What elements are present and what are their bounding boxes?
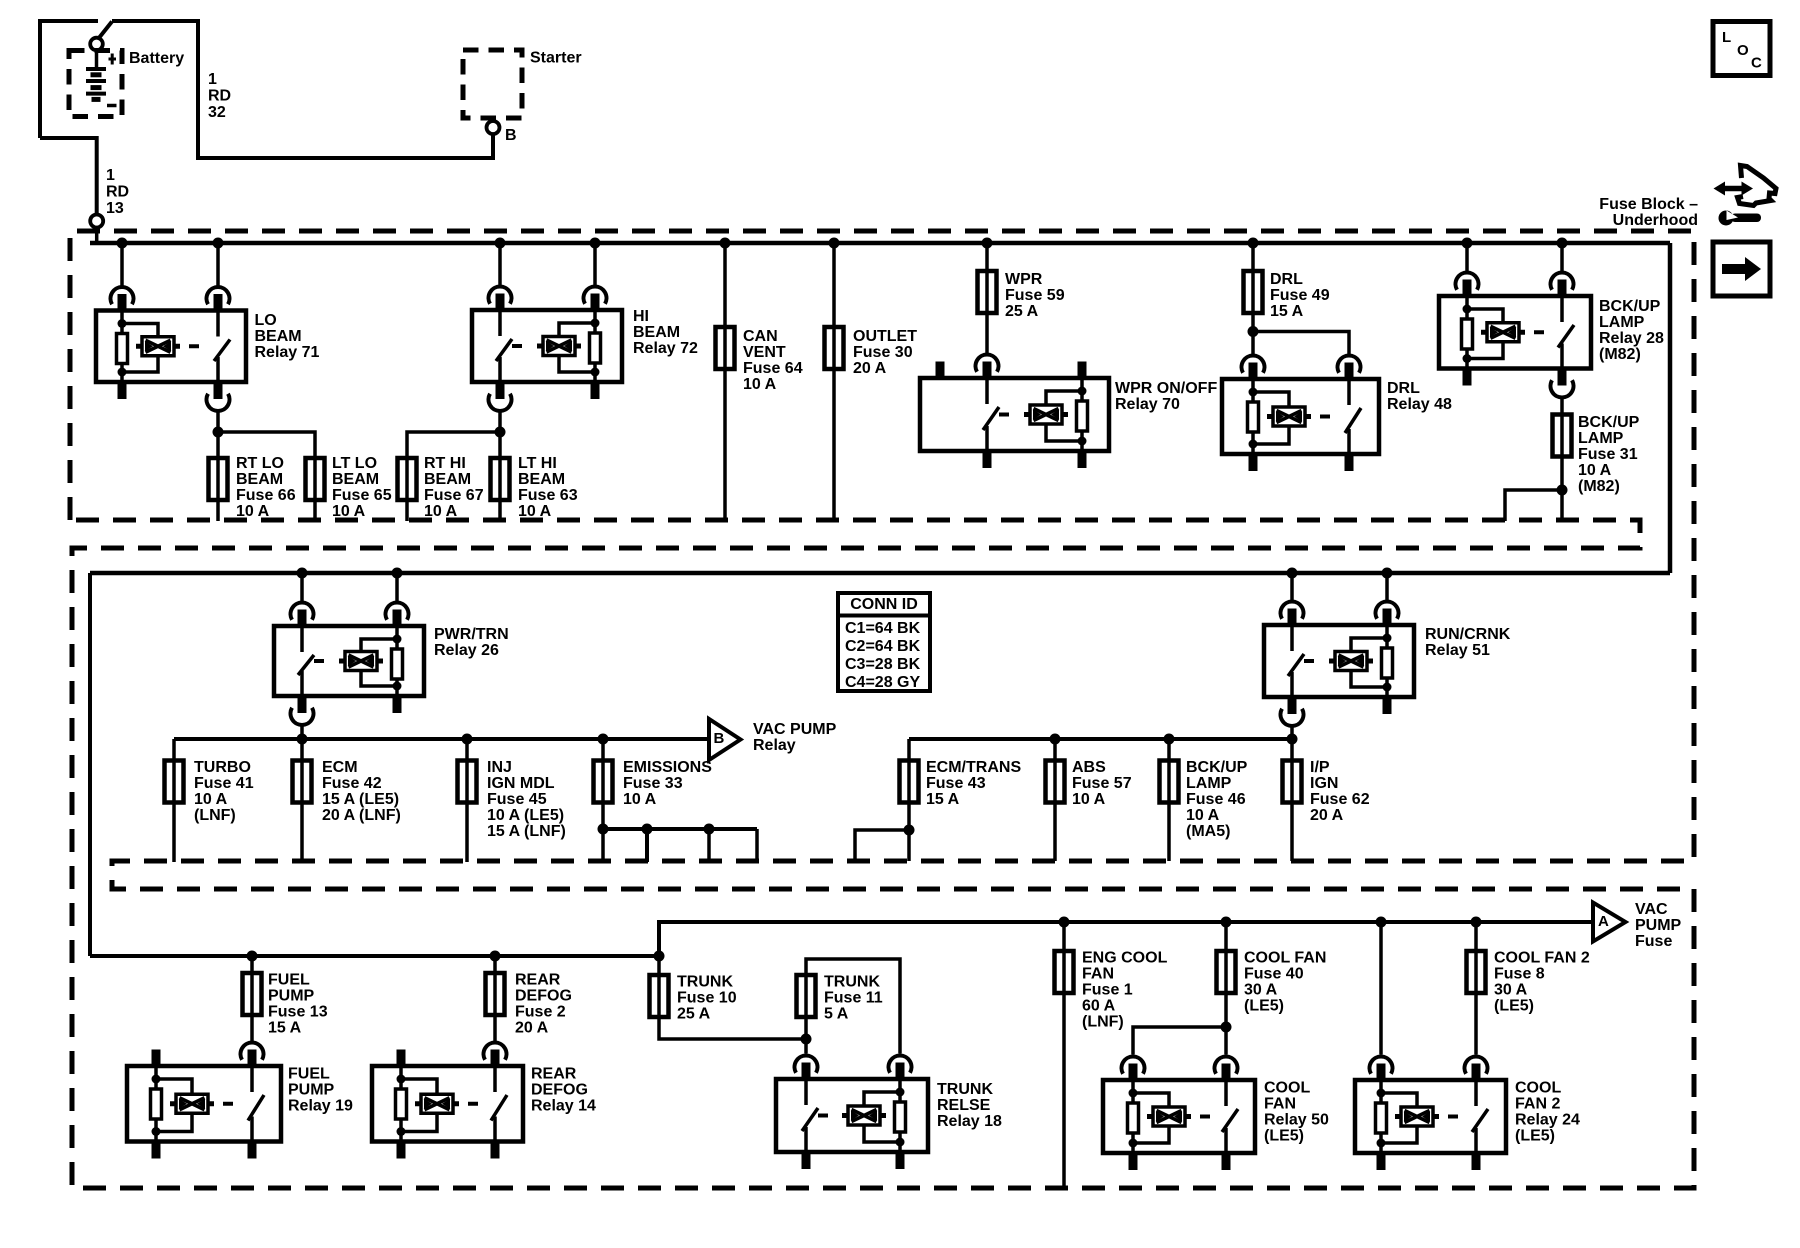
fuse LT LO BEAM Fuse 65 — [313, 458, 317, 500]
bus battery feed B+ top — [90, 241, 1670, 246]
fuse TRUNK Fuse 11 — [804, 975, 808, 1017]
wire DRL fuse column — [1251, 243, 1255, 271]
svg-text:10 A: 10 A — [743, 376, 777, 393]
fuse RT LO BEAM Fuse 66 — [216, 458, 220, 500]
svg-text:FAN: FAN — [1082, 966, 1114, 983]
svg-text:30 A: 30 A — [1494, 982, 1528, 999]
junction dot coolfan split — [1221, 1022, 1232, 1033]
LOC box — [1713, 22, 1770, 76]
fuse I/P IGN Fuse 62 — [1290, 761, 1294, 803]
svg-text:TRUNK: TRUNK — [677, 974, 733, 991]
fuse INJ IGN MDL Fuse 45 — [465, 761, 469, 803]
fuse LT HI BEAM Fuse 63 — [498, 458, 502, 500]
wire feed to bus — [95, 228, 99, 243]
svg-text:Fuse 49: Fuse 49 — [1270, 287, 1330, 304]
fuse BCK/UP LAMP Fuse 31 — [1560, 415, 1564, 457]
symbol VAC PUMP Fuse triangle A — [1593, 903, 1626, 942]
wire bus2 to bus3 left link — [88, 573, 92, 956]
bus left fuse rail — [174, 737, 709, 741]
wire HI beam relay feeds — [498, 243, 502, 287]
svg-text:Fuse 8: Fuse 8 — [1494, 966, 1545, 983]
svg-text:INJ: INJ — [487, 759, 512, 776]
svg-text:Relay 51: Relay 51 — [1425, 642, 1490, 659]
svg-text:Relay 18: Relay 18 — [937, 1113, 1002, 1130]
svg-text:RD: RD — [208, 88, 231, 105]
svg-text:32: 32 — [208, 104, 226, 121]
svg-text:15 A: 15 A — [1270, 303, 1304, 320]
wire ecm/trans staple — [855, 830, 909, 861]
wrench icon — [1719, 211, 1734, 226]
svg-text:(LE5): (LE5) — [1494, 998, 1534, 1015]
svg-text:Relay 72: Relay 72 — [633, 340, 698, 357]
svg-text:10 A: 10 A — [236, 503, 270, 520]
junction dot fuse31 split — [1557, 485, 1568, 496]
junction dot hi-beam split — [495, 427, 506, 438]
svg-text:Relay 28: Relay 28 — [1599, 330, 1664, 347]
fuse ECM/TRANS Fuse 43 — [907, 761, 911, 803]
svg-text:BCK/UP: BCK/UP — [1578, 414, 1640, 431]
svg-text:C3=28 BK: C3=28 BK — [845, 656, 921, 673]
svg-text:Fuse 33: Fuse 33 — [623, 775, 683, 792]
wire eng cool fan col — [1062, 922, 1066, 951]
junction dots bck/up — [1462, 238, 1473, 249]
svg-text:Fuse Block –: Fuse Block – — [1599, 196, 1698, 213]
svg-text:LAMP: LAMP — [1186, 775, 1232, 792]
svg-text:LAMP: LAMP — [1599, 314, 1645, 331]
svg-text:Fuse 41: Fuse 41 — [194, 775, 254, 792]
wire CAN VENT column — [723, 243, 727, 327]
relay REAR DEFOG Relay 14 — [372, 1043, 523, 1159]
svg-text:A: A — [1598, 913, 1609, 930]
svg-text:Fuse 64: Fuse 64 — [743, 360, 803, 377]
junction dot can vent — [720, 238, 731, 249]
wire RUN/CRNK relay feeds — [1290, 573, 1294, 602]
wire 1 RD 32 run to starter — [112, 21, 493, 158]
svg-text:(LE5): (LE5) — [1515, 1128, 1555, 1145]
svg-text:PUMP: PUMP — [268, 988, 315, 1005]
wire inj col — [465, 739, 469, 761]
wire emissions comb — [603, 827, 757, 831]
svg-text:BCK/UP: BCK/UP — [1599, 298, 1661, 315]
fuse FUEL PUMP Fuse 13 — [250, 973, 254, 1015]
relay COOL FAN 2 Relay 24 — [1355, 1057, 1506, 1170]
junction dot drl split — [1248, 326, 1259, 337]
svg-text:ECM: ECM — [322, 759, 358, 776]
svg-text:Fuse 66: Fuse 66 — [236, 487, 296, 504]
bus section2 — [90, 571, 1670, 576]
svg-text:Fuse 46: Fuse 46 — [1186, 791, 1246, 808]
svg-text:CAN: CAN — [743, 328, 778, 345]
wire rear defog col — [493, 956, 497, 973]
svg-text:CONN ID: CONN ID — [850, 596, 918, 613]
arrow icon — [1722, 264, 1745, 274]
svg-text:60 A: 60 A — [1082, 998, 1116, 1015]
svg-text:RUN/CRNK: RUN/CRNK — [1425, 626, 1511, 643]
fuse block dashed border — [70, 231, 1694, 1188]
svg-text:DRL: DRL — [1270, 271, 1303, 288]
svg-text:Fuse 30: Fuse 30 — [853, 344, 913, 361]
svg-text:5 A: 5 A — [824, 1006, 849, 1023]
svg-text:ECM/TRANS: ECM/TRANS — [926, 759, 1021, 776]
svg-text:RD: RD — [106, 184, 129, 201]
junction dot lo-beam split — [213, 427, 224, 438]
junction dots right rail — [1050, 734, 1061, 745]
svg-text:15 A (LNF): 15 A (LNF) — [487, 823, 566, 840]
node CONN ID table — [838, 593, 930, 691]
svg-text:(LE5): (LE5) — [1264, 1128, 1304, 1145]
wire LO beam relay feeds — [120, 243, 124, 287]
feed terminal circle — [90, 215, 103, 228]
svg-text:RT HI: RT HI — [424, 455, 466, 472]
wire WPR fuse column — [985, 243, 989, 271]
svg-text:(M82): (M82) — [1599, 346, 1641, 363]
relay BCK/UP LAMP Relay 28 — [1439, 273, 1591, 398]
svg-text:WPR ON/OFF: WPR ON/OFF — [1115, 380, 1217, 397]
wire coolfan branch — [1133, 1027, 1226, 1055]
fuse ECM Fuse 42 — [300, 761, 304, 803]
wire relay28 switch out — [1560, 398, 1564, 415]
svg-text:Fuse 31: Fuse 31 — [1578, 446, 1638, 463]
wire emissions col — [601, 739, 605, 761]
svg-text:1: 1 — [208, 71, 217, 88]
relay LO BEAM Relay 71 — [96, 287, 246, 411]
wire ip ign out — [1290, 803, 1294, 862]
svg-text:Fuse 13: Fuse 13 — [268, 1004, 328, 1021]
junction dots pwr/trn — [297, 568, 308, 579]
svg-text:Relay 14: Relay 14 — [531, 1098, 596, 1115]
svg-text:Starter: Starter — [530, 50, 582, 67]
fuse COOL FAN Fuse 40 — [1224, 951, 1228, 993]
svg-text:FUEL: FUEL — [288, 1066, 330, 1083]
fuse ENG COOL FAN Fuse 1 — [1062, 951, 1066, 993]
svg-text:(LNF): (LNF) — [1082, 1014, 1124, 1031]
battery positive terminal circle — [90, 38, 103, 51]
svg-text:BEAM: BEAM — [633, 324, 680, 341]
fuse OUTLET Fuse 30 — [832, 327, 836, 369]
svg-text:Relay 70: Relay 70 — [1115, 396, 1180, 413]
svg-text:DEFOG: DEFOG — [515, 988, 572, 1005]
fuse CAN VENT Fuse 64 — [723, 327, 727, 369]
svg-text:DRL: DRL — [1387, 380, 1420, 397]
svg-text:Fuse 45: Fuse 45 — [487, 791, 547, 808]
double arrow icon — [1721, 186, 1746, 192]
svg-text:Underhood: Underhood — [1613, 212, 1698, 229]
svg-text:FAN: FAN — [1264, 1096, 1296, 1113]
svg-text:LAMP: LAMP — [1578, 430, 1624, 447]
svg-text:Fuse 63: Fuse 63 — [518, 487, 578, 504]
wire relay71 switch output — [216, 411, 220, 458]
svg-text:20 A: 20 A — [515, 1020, 549, 1037]
svg-text:20 A (LNF): 20 A (LNF) — [322, 807, 401, 824]
fuse BCK/UP LAMP Fuse 46 — [1167, 761, 1171, 803]
wire turbo col — [172, 739, 176, 761]
svg-text:Fuse 10: Fuse 10 — [677, 990, 737, 1007]
wire battery box top-left — [40, 21, 98, 138]
svg-text:(LNF): (LNF) — [194, 807, 236, 824]
svg-text:Relay 19: Relay 19 — [288, 1098, 353, 1115]
svg-text:COOL FAN: COOL FAN — [1244, 950, 1326, 967]
wire fusible-link diagonal — [99, 22, 113, 39]
svg-text:FUEL: FUEL — [268, 972, 310, 989]
svg-text:10 A: 10 A — [1072, 791, 1106, 808]
svg-text:Relay 26: Relay 26 — [434, 642, 499, 659]
battery dashed outline — [69, 51, 122, 117]
svg-text:15 A: 15 A — [268, 1020, 302, 1037]
svg-text:10 A: 10 A — [623, 791, 657, 808]
svg-text:(LE5): (LE5) — [1244, 998, 1284, 1015]
svg-text:15 A: 15 A — [926, 791, 960, 808]
junction dot ecm/trans staple — [904, 825, 915, 836]
svg-text:10 A: 10 A — [518, 503, 552, 520]
svg-text:20 A: 20 A — [1310, 807, 1344, 824]
svg-text:LT HI: LT HI — [518, 455, 557, 472]
svg-text:VAC: VAC — [1635, 901, 1668, 918]
junction dots comb — [598, 824, 609, 835]
svg-text:Fuse 67: Fuse 67 — [424, 487, 484, 504]
wire relay51 switch out — [1290, 726, 1294, 761]
fuse DRL Fuse 49 — [1251, 271, 1255, 313]
wire fuel pump col — [250, 956, 254, 973]
svg-text:PWR/TRN: PWR/TRN — [434, 626, 509, 643]
car outline icon — [1738, 166, 1777, 206]
svg-text:Battery: Battery — [129, 50, 184, 67]
svg-text:Relay 71: Relay 71 — [255, 344, 320, 361]
fuse REAR DEFOG Fuse 2 — [493, 973, 497, 1015]
svg-text:O: O — [1737, 42, 1749, 59]
svg-text:COOL FAN 2: COOL FAN 2 — [1494, 950, 1590, 967]
arrow box — [1713, 242, 1770, 296]
junction dot outlet — [829, 238, 840, 249]
svg-text:REAR: REAR — [531, 1066, 577, 1083]
relay HI BEAM Relay 72 — [472, 287, 622, 411]
relay RUN/CRNK Relay 51 — [1264, 602, 1414, 726]
svg-text:Fuse 1: Fuse 1 — [1082, 982, 1133, 999]
svg-text:IGN: IGN — [1310, 775, 1338, 792]
wire bck/up46 col — [1167, 739, 1171, 761]
svg-text:10 A (LE5): 10 A (LE5) — [487, 807, 564, 824]
svg-text:VAC PUMP: VAC PUMP — [753, 721, 837, 738]
wire cool fan2 fuse col — [1474, 922, 1478, 951]
svg-text:Relay: Relay — [753, 737, 796, 754]
symbol VAC PUMP Relay triangle B — [709, 719, 741, 760]
battery stem wire — [95, 51, 99, 69]
svg-text:Fuse 11: Fuse 11 — [824, 990, 883, 1007]
svg-text:OUTLET: OUTLET — [853, 328, 917, 345]
svg-text:BEAM: BEAM — [424, 471, 471, 488]
starter dashed box — [463, 50, 522, 118]
svg-text:DEFOG: DEFOG — [531, 1082, 588, 1099]
svg-text:C: C — [1751, 55, 1762, 72]
svg-text:PUMP: PUMP — [1635, 917, 1682, 934]
svg-text:30 A: 30 A — [1244, 982, 1278, 999]
fuse TRUNK Fuse 10 — [657, 975, 661, 1017]
wire trunk fuse10 col — [657, 956, 661, 975]
wire fuse31 out — [1560, 457, 1564, 522]
svg-text:Fuse 62: Fuse 62 — [1310, 791, 1370, 808]
svg-text:25 A: 25 A — [1005, 303, 1039, 320]
wire cool fan2 coil feed — [1379, 922, 1383, 1055]
svg-text:13: 13 — [106, 200, 124, 217]
svg-text:Relay 48: Relay 48 — [1387, 396, 1452, 413]
wire branch to fuse 65 — [218, 432, 315, 458]
svg-text:C2=64 BK: C2=64 BK — [845, 638, 921, 655]
wire BCK/UP relay feeds — [1465, 243, 1469, 273]
wire branch to fuse 67 — [407, 432, 500, 458]
svg-text:Fuse: Fuse — [1635, 933, 1672, 950]
svg-text:15 A (LE5): 15 A (LE5) — [322, 791, 399, 808]
wire ecm col — [300, 739, 304, 761]
svg-text:Relay 50: Relay 50 — [1264, 1112, 1329, 1129]
junction dot wpr — [982, 238, 993, 249]
svg-text:RELSE: RELSE — [937, 1097, 991, 1114]
junction dots run/crnk — [1287, 568, 1298, 579]
wire relay72 switch output — [498, 411, 502, 458]
fuse TURBO Fuse 41 — [172, 761, 176, 803]
svg-text:LT LO: LT LO — [332, 455, 377, 472]
svg-text:B: B — [505, 127, 517, 144]
svg-text:Fuse 40: Fuse 40 — [1244, 966, 1304, 983]
svg-text:Fuse 43: Fuse 43 — [926, 775, 986, 792]
relay FUEL PUMP Relay 19 — [127, 1043, 281, 1159]
svg-text:Fuse 57: Fuse 57 — [1072, 775, 1132, 792]
svg-text:REAR: REAR — [515, 972, 561, 989]
junction dots coolfan rail — [1059, 917, 1070, 928]
fuse RT HI BEAM Fuse 67 — [405, 458, 409, 500]
starter terminal circle B — [487, 121, 500, 134]
bus right fuse rail — [909, 737, 1292, 741]
svg-text:Fuse 2: Fuse 2 — [515, 1004, 566, 1021]
svg-text:10 A: 10 A — [332, 503, 366, 520]
relay PWR/TRN Relay 26 — [274, 603, 424, 725]
junction dot trunk — [801, 1034, 812, 1045]
wire fuse67 out — [405, 500, 409, 521]
svg-text:10 A: 10 A — [424, 503, 458, 520]
fuse ABS Fuse 57 — [1053, 761, 1057, 803]
wire fuse66 out — [216, 500, 220, 521]
wire ecm/trans col — [907, 739, 911, 761]
svg-text:(MA5): (MA5) — [1186, 823, 1230, 840]
fuse EMISSIONS Fuse 33 — [601, 761, 605, 803]
junction dots left rail — [297, 734, 308, 745]
svg-text:C1=64 BK: C1=64 BK — [845, 620, 921, 637]
svg-text:10 A: 10 A — [1578, 462, 1612, 479]
svg-text:PUMP: PUMP — [288, 1082, 335, 1099]
junction dots HI beam — [495, 238, 506, 249]
svg-text:ENG COOL: ENG COOL — [1082, 950, 1168, 967]
junction dots bus3 — [247, 951, 258, 962]
relay COOL FAN Relay 50 — [1103, 1057, 1255, 1170]
junction dot drl — [1248, 238, 1259, 249]
svg-text:ABS: ABS — [1072, 759, 1106, 776]
battery minus sign — [107, 104, 117, 108]
relay DRL Relay 48 — [1222, 356, 1379, 471]
svg-text:1: 1 — [106, 167, 115, 184]
junction dots LO beam — [117, 238, 128, 249]
relay TRUNK RELSE Relay 18 — [776, 1056, 928, 1169]
wire fuse65 out — [313, 500, 317, 521]
svg-text:EMISSIONS: EMISSIONS — [623, 759, 712, 776]
svg-text:C4=28 GY: C4=28 GY — [845, 674, 920, 691]
battery plus sign — [109, 54, 117, 65]
svg-text:BCK/UP: BCK/UP — [1186, 759, 1248, 776]
svg-text:RT LO: RT LO — [236, 455, 284, 472]
svg-text:TURBO: TURBO — [194, 759, 251, 776]
svg-text:Fuse 42: Fuse 42 — [322, 775, 382, 792]
battery plates — [86, 67, 106, 71]
svg-text:BEAM: BEAM — [332, 471, 379, 488]
fuse WPR Fuse 59 — [985, 271, 989, 313]
svg-text:IGN MDL: IGN MDL — [487, 775, 555, 792]
svg-text:Fuse 65: Fuse 65 — [332, 487, 392, 504]
svg-text:LO: LO — [255, 312, 277, 329]
svg-text:10 A: 10 A — [1186, 807, 1220, 824]
svg-text:TRUNK: TRUNK — [937, 1081, 993, 1098]
svg-text:BEAM: BEAM — [255, 328, 302, 345]
svg-text:HI: HI — [633, 308, 649, 325]
svg-text:I/P: I/P — [1310, 759, 1330, 776]
wire OUTLET column — [832, 243, 836, 327]
svg-text:20 A: 20 A — [853, 360, 887, 377]
wire cool fan fuse col — [1224, 922, 1228, 951]
svg-text:10 A: 10 A — [194, 791, 228, 808]
wire PWR/TRN relay feeds — [300, 573, 304, 603]
svg-text:L: L — [1722, 29, 1731, 46]
bus section3 — [90, 954, 659, 958]
svg-text:B: B — [714, 730, 725, 747]
svg-text:BEAM: BEAM — [518, 471, 565, 488]
wire abs col — [1053, 739, 1057, 761]
wire fuse31 branch — [1505, 490, 1562, 521]
wire fuse63 out — [498, 500, 502, 521]
svg-text:TRUNK: TRUNK — [824, 974, 880, 991]
wire trunk fuse11 out — [804, 1017, 808, 1054]
svg-text:(M82): (M82) — [1578, 478, 1620, 495]
bus trunk-coolfan riser rail — [659, 922, 1591, 956]
svg-text:Relay 24: Relay 24 — [1515, 1112, 1580, 1129]
svg-text:25 A: 25 A — [677, 1006, 711, 1023]
wire trunk fuse11 top loop — [806, 959, 900, 1054]
svg-text:COOL: COOL — [1264, 1080, 1310, 1097]
svg-text:Fuse 59: Fuse 59 — [1005, 287, 1065, 304]
svg-text:COOL: COOL — [1515, 1080, 1561, 1097]
svg-text:FAN 2: FAN 2 — [1515, 1096, 1560, 1113]
svg-text:WPR: WPR — [1005, 271, 1043, 288]
wire battery bottom to feed — [40, 138, 97, 214]
svg-text:BEAM: BEAM — [236, 471, 283, 488]
wire relay26 switch out — [300, 725, 304, 739]
fuse COOL FAN 2 Fuse 8 — [1474, 951, 1478, 993]
relay WPR ON/OFF Relay 70 — [920, 355, 1109, 468]
wire bus1 to bus2 right link — [1668, 243, 1673, 573]
svg-text:VENT: VENT — [743, 344, 786, 361]
wire drl branch to switch — [1253, 332, 1349, 357]
